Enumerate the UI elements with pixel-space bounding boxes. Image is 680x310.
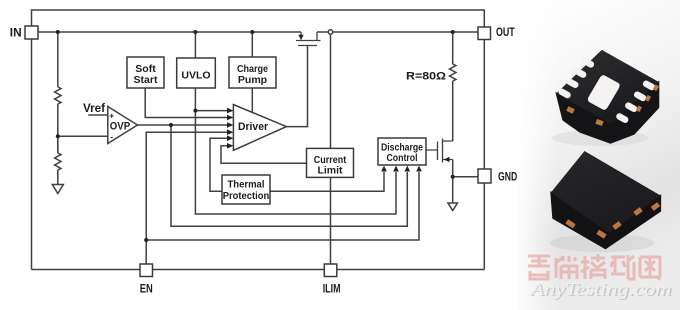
wire Thermal Protection to Discharge Control [270, 172, 384, 191]
svg-text:R=80Ω: R=80Ω [406, 71, 446, 83]
chip shadows [552, 130, 648, 146]
arrow driver in6 [227, 143, 233, 149]
pin IN [25, 26, 38, 39]
node EN branch [144, 238, 148, 242]
IC package photo 2 (QFN top view) [551, 151, 661, 249]
chip1 center pad [587, 74, 622, 111]
wire Soft Start to driver [145, 88, 227, 118]
transistor M1 pass PMOS [296, 32, 321, 46]
wire top rail IN to OUT [32, 10, 485, 27]
arrow DC in3 [405, 166, 411, 172]
wire Charge Pump top [251, 32, 253, 57]
block UVLO [177, 58, 216, 88]
ground divider [52, 185, 63, 194]
transistor M2 discharge NMOS [426, 139, 453, 163]
wire OVP minus input [58, 135, 108, 137]
chip1 left pads [581, 57, 596, 69]
node on IN rail at Charge Pump [250, 30, 254, 34]
chip1 orange side pads [566, 84, 659, 126]
wire rail right of M1 to OUT [317, 31, 478, 33]
pin ILIM [324, 264, 337, 277]
node on IN rail at divider [56, 30, 60, 34]
arrow M1 source [298, 35, 303, 40]
wire EN to driver [146, 132, 227, 264]
arrow driver in2 [227, 115, 233, 121]
svg-text:Limit: Limit [317, 165, 343, 177]
wire OUT to GND pin vertical [483, 38, 485, 270]
arrow DC in2 [393, 166, 399, 172]
arrow driver in4 [227, 129, 233, 135]
node on OUT rail at R branch [451, 30, 455, 34]
svg-text:AnyTesting.com: AnyTesting.com [529, 279, 671, 299]
block Discharge Control [378, 138, 426, 165]
svg-text:Start: Start [134, 74, 158, 86]
node on IN rail at UVLO [193, 30, 197, 34]
wire OVP output to driver [138, 124, 228, 126]
wire bottom rail [32, 269, 485, 271]
chip2 side faces [551, 192, 661, 248]
wire Current Limit to ILIM pin [330, 177, 332, 269]
wire EN to discharge bus [146, 172, 419, 240]
wire UVLO to driver [195, 88, 227, 111]
blocks [25, 26, 491, 277]
block Current Limit [307, 148, 354, 177]
svg-text:Driver: Driver [238, 121, 269, 133]
wire Charge Pump to driver [251, 88, 253, 113]
wire M2 source to GND [452, 160, 454, 204]
svg-text:-: - [110, 131, 113, 141]
wire GND pin wire [453, 176, 478, 178]
wire Thermal Protection to driver [210, 138, 227, 191]
arrow DC in4 [416, 166, 422, 172]
node UVLO driver branch [193, 109, 197, 113]
arrow driver in5 [227, 135, 233, 141]
node open circle on OUT rail [328, 30, 332, 34]
chip1 side faces [556, 82, 658, 143]
node divider OVP tap [56, 134, 60, 138]
chip1 top face [556, 50, 658, 124]
block Thermal Protection [222, 175, 270, 204]
svg-text:ILIM: ILIM [323, 284, 341, 296]
arrow driver in3 [227, 122, 233, 128]
node M2 source GND [451, 175, 455, 179]
op-amp OVP [108, 107, 138, 144]
op-amp Driver [233, 105, 286, 151]
svg-text:+: + [109, 110, 114, 120]
chip2 top face [551, 151, 661, 233]
wire UVLO down to discharge bus [195, 111, 396, 214]
wire left vertical IN to bottom rail [31, 39, 33, 270]
svg-text:UVLO: UVLO [181, 69, 210, 81]
pin GND [478, 169, 491, 183]
resistor R divider top [55, 32, 61, 153]
photo panel background [518, 0, 680, 310]
svg-text:GND: GND [498, 172, 517, 184]
wire R=80 branch from OUT rail [450, 32, 456, 141]
arrow M2 source [444, 157, 450, 162]
arrow driver in1 [227, 108, 233, 114]
svg-text:Pump: Pump [238, 74, 267, 86]
wire OUT sense to Current Limit [330, 34, 332, 148]
wire driver output to M1 gate [286, 46, 307, 127]
svg-text:Protection: Protection [223, 190, 270, 202]
svg-text:Vref: Vref [83, 101, 106, 115]
resistor R divider bottom [55, 136, 61, 184]
svg-text:Control: Control [387, 152, 418, 164]
arrow DC in1 [381, 166, 387, 172]
svg-text:Thermal: Thermal [228, 179, 265, 191]
wire Vref plus input [88, 114, 108, 116]
node OVP output branch [169, 123, 173, 127]
ground discharge [448, 203, 458, 211]
wire IN rail [38, 31, 301, 33]
block Charge Pump [229, 57, 276, 88]
pin OUT [478, 27, 491, 40]
block Soft Start [127, 57, 164, 88]
wire UVLO top [194, 32, 196, 58]
pin EN [140, 264, 153, 277]
chip2 orange pads [565, 202, 660, 239]
wire OVP branch to discharge bus [171, 125, 407, 226]
svg-text:IN: IN [10, 27, 22, 39]
svg-text:OUT: OUT [496, 27, 515, 39]
chip1 right pads [642, 79, 657, 91]
watermark hanzi (approximated strokes) [528, 254, 660, 280]
svg-text:EN: EN [140, 284, 153, 296]
wire Current Limit to driver [221, 146, 307, 164]
IC package photo 1 (QFN bottom view) [556, 50, 659, 143]
